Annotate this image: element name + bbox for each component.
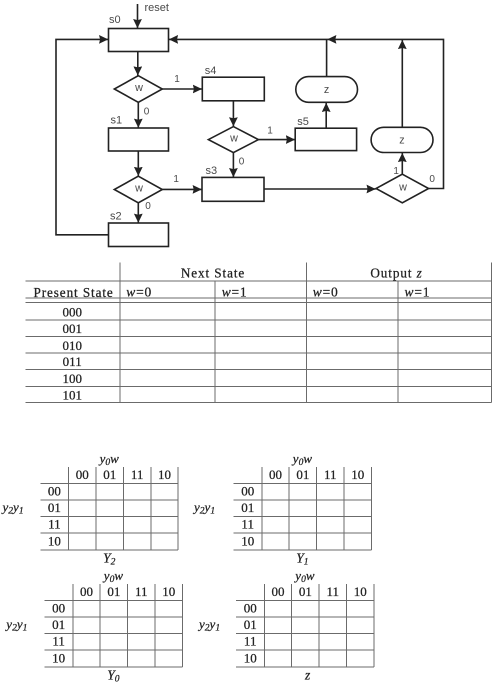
svg-text:w: w bbox=[134, 82, 143, 94]
svg-text:z: z bbox=[304, 667, 311, 682]
svg-text:z: z bbox=[399, 135, 404, 147]
svg-text:y0w: y0w bbox=[291, 451, 313, 468]
svg-text:w: w bbox=[229, 133, 238, 145]
svg-text:s1: s1 bbox=[111, 115, 123, 127]
svg-text:1: 1 bbox=[393, 166, 399, 177]
svg-text:Present State: Present State bbox=[34, 285, 114, 300]
svg-text:11: 11 bbox=[135, 584, 148, 599]
svg-text:01: 01 bbox=[107, 584, 120, 599]
svg-text:y2y1: y2y1 bbox=[192, 500, 215, 517]
svg-text:w=1: w=1 bbox=[222, 285, 248, 300]
svg-text:01: 01 bbox=[299, 584, 312, 599]
svg-text:11: 11 bbox=[327, 584, 340, 599]
svg-text:11: 11 bbox=[241, 517, 254, 532]
svg-text:0: 0 bbox=[239, 157, 245, 168]
svg-text:y2y1: y2y1 bbox=[1, 500, 24, 517]
svg-text:10: 10 bbox=[48, 533, 61, 548]
svg-text:01: 01 bbox=[48, 500, 61, 515]
svg-text:10: 10 bbox=[52, 650, 65, 665]
svg-text:011: 011 bbox=[63, 354, 82, 369]
svg-text:100: 100 bbox=[62, 371, 82, 386]
svg-text:y0w: y0w bbox=[102, 568, 124, 585]
svg-text:s0: s0 bbox=[109, 14, 121, 26]
svg-text:10: 10 bbox=[158, 467, 171, 482]
svg-text:10: 10 bbox=[162, 584, 175, 599]
svg-text:Y2: Y2 bbox=[103, 550, 116, 567]
svg-text:000: 000 bbox=[62, 305, 82, 320]
svg-text:1: 1 bbox=[174, 74, 180, 85]
svg-text:Next State: Next State bbox=[181, 266, 245, 281]
svg-text:101: 101 bbox=[62, 387, 82, 402]
svg-text:11: 11 bbox=[52, 634, 65, 649]
svg-text:001: 001 bbox=[62, 321, 82, 336]
svg-text:y2y1: y2y1 bbox=[4, 617, 27, 634]
svg-text:w: w bbox=[398, 182, 407, 194]
svg-text:00: 00 bbox=[244, 601, 257, 616]
svg-text:1: 1 bbox=[267, 125, 273, 136]
svg-text:11: 11 bbox=[48, 517, 61, 532]
svg-text:y0w: y0w bbox=[98, 451, 120, 468]
svg-text:01: 01 bbox=[244, 617, 257, 632]
svg-text:0: 0 bbox=[429, 174, 435, 185]
svg-text:10: 10 bbox=[244, 650, 257, 665]
svg-text:01: 01 bbox=[52, 617, 65, 632]
svg-text:reset: reset bbox=[145, 2, 169, 14]
svg-text:0: 0 bbox=[144, 107, 150, 118]
svg-text:00: 00 bbox=[48, 484, 61, 499]
svg-text:s3: s3 bbox=[206, 165, 218, 177]
svg-text:w: w bbox=[134, 182, 143, 194]
svg-text:10: 10 bbox=[241, 533, 254, 548]
svg-text:w=0: w=0 bbox=[313, 285, 339, 300]
svg-text:s2: s2 bbox=[110, 211, 122, 223]
svg-text:00: 00 bbox=[52, 601, 65, 616]
svg-text:s4: s4 bbox=[205, 65, 217, 77]
svg-text:00: 00 bbox=[269, 467, 282, 482]
svg-text:00: 00 bbox=[80, 584, 93, 599]
svg-text:Output z: Output z bbox=[370, 266, 422, 281]
svg-text:01: 01 bbox=[103, 467, 116, 482]
svg-text:11: 11 bbox=[244, 634, 257, 649]
svg-text:z: z bbox=[324, 84, 329, 96]
svg-text:w=1: w=1 bbox=[405, 285, 431, 300]
svg-text:00: 00 bbox=[241, 484, 254, 499]
svg-text:Y1: Y1 bbox=[296, 550, 308, 567]
svg-text:10: 10 bbox=[351, 467, 364, 482]
svg-text:11: 11 bbox=[131, 467, 144, 482]
svg-text:00: 00 bbox=[76, 467, 89, 482]
svg-text:Y0: Y0 bbox=[107, 667, 120, 684]
svg-text:10: 10 bbox=[354, 584, 367, 599]
svg-text:00: 00 bbox=[272, 584, 285, 599]
svg-text:y2y1: y2y1 bbox=[197, 617, 220, 634]
svg-text:11: 11 bbox=[324, 467, 337, 482]
svg-text:01: 01 bbox=[296, 467, 309, 482]
svg-text:s5: s5 bbox=[297, 116, 309, 128]
svg-text:0: 0 bbox=[145, 201, 151, 212]
svg-text:1: 1 bbox=[173, 174, 179, 185]
svg-text:01: 01 bbox=[241, 500, 254, 515]
svg-text:w=0: w=0 bbox=[126, 285, 152, 300]
svg-text:010: 010 bbox=[62, 338, 82, 353]
svg-text:y0w: y0w bbox=[293, 568, 315, 585]
